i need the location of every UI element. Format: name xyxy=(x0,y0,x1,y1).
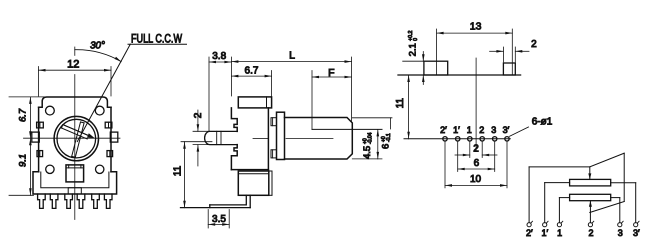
svg-text:2: 2 xyxy=(588,228,593,238)
svg-text:2.1: 2.1 xyxy=(408,43,419,56)
svg-text:11: 11 xyxy=(173,165,184,176)
svg-text:2: 2 xyxy=(193,112,204,118)
svg-text:-0.1: -0.1 xyxy=(386,133,392,142)
svg-text:6.7: 6.7 xyxy=(245,65,259,76)
svg-text:1: 1 xyxy=(467,125,472,135)
svg-text:1: 1 xyxy=(557,228,562,238)
svg-text:1′: 1′ xyxy=(453,125,460,135)
svg-text:3′: 3′ xyxy=(633,228,640,238)
svg-text:L: L xyxy=(289,50,295,62)
svg-text:11: 11 xyxy=(395,98,406,109)
svg-text:4.5: 4.5 xyxy=(362,146,373,159)
svg-text:10: 10 xyxy=(470,174,482,185)
svg-text:F: F xyxy=(328,67,334,79)
svg-text:1′: 1′ xyxy=(541,228,548,238)
svg-text:3′: 3′ xyxy=(503,125,510,135)
svg-text:0: 0 xyxy=(413,38,419,41)
svg-text:9.1: 9.1 xyxy=(17,154,28,167)
svg-text:13: 13 xyxy=(470,20,482,32)
svg-text:2: 2 xyxy=(479,125,484,135)
svg-text:2′: 2′ xyxy=(526,228,533,238)
svg-text:3.5: 3.5 xyxy=(212,214,226,225)
svg-text:12: 12 xyxy=(67,58,79,70)
svg-text:2′: 2′ xyxy=(440,125,447,135)
svg-text:3: 3 xyxy=(618,228,623,238)
svg-text:6: 6 xyxy=(381,144,392,149)
svg-text:6-ø1: 6-ø1 xyxy=(532,117,553,128)
svg-text:3: 3 xyxy=(491,125,496,135)
svg-text:2: 2 xyxy=(531,39,537,50)
svg-text:30°: 30° xyxy=(90,41,105,52)
svg-text:3.8: 3.8 xyxy=(212,51,226,62)
svg-text:-0.04: -0.04 xyxy=(368,132,374,144)
svg-text:6: 6 xyxy=(474,158,480,169)
svg-text:2: 2 xyxy=(473,144,479,155)
svg-text:6.7: 6.7 xyxy=(17,108,28,122)
